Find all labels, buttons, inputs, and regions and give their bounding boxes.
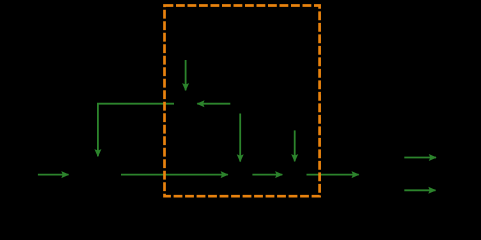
wire arrow down (right, inside dashed box) — [294, 130, 296, 161]
wire arrow (bottom row, middle) — [252, 174, 282, 176]
wire arrow left into summing node — [197, 103, 230, 105]
wire arrow input (far left, bottom row) — [38, 174, 69, 176]
wire arrow out of dashed box (bottom row) — [307, 174, 359, 176]
wire elbow from summing node down-left — [98, 104, 174, 157]
wire output arrow upper right — [404, 157, 436, 159]
wire long arrow (bottom row) — [121, 174, 228, 176]
wire arrow into summing node (top, inside dashed box) — [185, 60, 187, 90]
wire arrow down (middle, inside dashed box) — [239, 114, 241, 162]
dashed boundary box — [165, 6, 320, 197]
wire output arrow lower right — [404, 189, 435, 191]
